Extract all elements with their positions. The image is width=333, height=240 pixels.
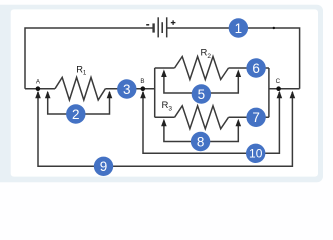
wire bracket 5 (across R2) [164, 72, 238, 94]
blue section container [0, 5, 323, 183]
marker circle 6 [246, 58, 265, 77]
marker circle 5 [192, 84, 211, 103]
svg-text:5: 5 [198, 87, 206, 102]
arrowhead wire10 at C [277, 91, 283, 99]
arrowhead wire10 at B [140, 91, 146, 99]
svg-text:C: C [276, 78, 281, 85]
svg-text:9: 9 [100, 159, 108, 174]
wire main line right (box to C to right edge) [269, 88, 300, 90]
wire main line left (A to R1) [25, 88, 55, 90]
marker circle 9 [94, 157, 113, 176]
wire bracket 2 (across R1) [48, 92, 110, 114]
node C dot [276, 86, 281, 91]
arrowhead bracket5 left [161, 69, 167, 77]
wire bracket 8 (across R3) [164, 121, 238, 142]
arrowhead bracket2 right [107, 91, 113, 99]
marker circle 8 [191, 132, 210, 151]
svg-text:2: 2 [72, 107, 80, 122]
junction dot on top wire [273, 27, 275, 29]
marker circle 3 [117, 79, 136, 98]
node B dot [141, 86, 146, 91]
arrowhead bracket5 right [236, 69, 242, 77]
wire R3 branch right [229, 116, 269, 118]
marker circle 10 [246, 144, 265, 163]
resistor R3 [175, 106, 229, 129]
wire parallel box right vertical [268, 68, 270, 117]
svg-text:1: 1 [235, 21, 243, 36]
card panel [11, 9, 318, 176]
svg-text:7: 7 [252, 110, 260, 125]
svg-text:6: 6 [252, 61, 260, 76]
arrowhead wire9 at A [35, 91, 41, 99]
arrowhead bracket2 left [45, 91, 51, 99]
wire top left segment [25, 28, 154, 89]
resistor R1 [55, 77, 105, 100]
wire R3 branch left [155, 116, 175, 118]
wire measurement 10 (B to C loop) [143, 92, 279, 153]
wire measurement 9 (A to right, bottom loop) [38, 92, 292, 166]
wire top right segment [167, 28, 300, 89]
svg-text:10: 10 [249, 147, 263, 161]
node A dot [36, 86, 41, 91]
battery minus label [146, 24, 149, 26]
marker circle 7 [246, 108, 265, 127]
wire R2 branch right [229, 67, 269, 69]
arrowhead wire9 right end [290, 91, 296, 99]
marker circle 1 [229, 18, 248, 37]
wire R1 to node B [105, 88, 154, 90]
battery plus label [171, 20, 176, 25]
svg-text:8: 8 [197, 134, 205, 149]
wire parallel box left vertical [154, 68, 156, 117]
svg-text:3: 3 [123, 82, 131, 97]
battery V1 plates [154, 17, 167, 37]
wire R2 branch left [155, 67, 175, 69]
arrowhead bracket8 right [236, 119, 242, 127]
svg-text:B: B [140, 78, 144, 85]
marker circle 2 [66, 104, 85, 123]
arrowhead bracket8 left [161, 119, 167, 127]
resistor R2 [175, 57, 229, 80]
